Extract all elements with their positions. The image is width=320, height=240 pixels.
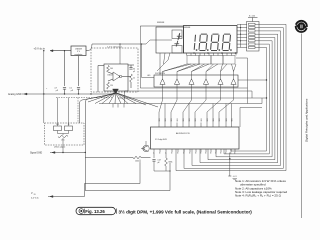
svg-text:µF: µF (158, 162, 161, 164)
svg-text:SEG: SEG (201, 117, 203, 121)
svg-text:P: P (160, 152, 162, 153)
svg-text:8 x 150: 8 x 150 (249, 15, 255, 17)
svg-text:LM113: LM113 (108, 75, 114, 77)
svg-text:1.2 V reference: 1.2 V reference (107, 46, 123, 49)
svg-text:+5 V dc in: +5 V dc in (34, 46, 46, 50)
svg-text:Note 4: R₁R₂(R₃ + R₄ + R₅) = 2: Note 4: R₁R₂(R₃ + R₄ + R₅) = 25 Ω (235, 193, 282, 197)
svg-text:SEG: SEG (177, 117, 179, 121)
svg-text:P: P (216, 152, 218, 153)
svg-text:Analog GND: Analog GND (8, 93, 22, 96)
svg-text:offset adjust: offset adjust (54, 145, 66, 148)
svg-text:P: P (235, 152, 237, 153)
svg-text:P: P (221, 152, 223, 153)
svg-text:680k: 680k (169, 162, 173, 164)
svg-text:100k: 100k (135, 161, 139, 163)
svg-text:regulator: regulator (75, 53, 83, 56)
svg-text:3½ digit DPM, +1.999 Vdc full: 3½ digit DPM, +1.999 Vdc full scale, (Na… (119, 208, 253, 214)
svg-text:Digital Principles and Applica: Digital Principles and Applications (305, 98, 309, 142)
svg-text:P: P (196, 152, 198, 153)
svg-text:NSB5388: NSB5388 (183, 27, 190, 29)
svg-text:P: P (231, 152, 233, 153)
svg-text:V: V (31, 192, 33, 195)
svg-text:µF: µF (71, 90, 74, 92)
svg-text:NSB5388: NSB5388 (157, 22, 164, 24)
svg-text:P: P (206, 152, 208, 153)
svg-text:120: 120 (110, 85, 113, 87)
svg-text:P: P (201, 152, 203, 153)
svg-text:P: P (226, 152, 228, 153)
svg-text:P: P (172, 152, 174, 153)
svg-text:Fig. 13.26: Fig. 13.26 (85, 209, 105, 214)
svg-text:µF: µF (56, 90, 59, 92)
svg-text:pF: pF (133, 71, 135, 73)
svg-text:2k: 2k (133, 78, 135, 80)
svg-text:0-2 V dc: 0-2 V dc (31, 197, 39, 199)
svg-text:+5 V: +5 V (233, 176, 238, 178)
svg-text:3 1/2-digit DVM: 3 1/2-digit DVM (155, 138, 167, 141)
svg-text:IN: IN (34, 194, 36, 196)
svg-text:P: P (190, 152, 192, 153)
svg-text:LED: LED (147, 75, 151, 77)
svg-text:P: P (211, 152, 213, 153)
svg-text:LM309: LM309 (75, 49, 82, 51)
svg-text:+: + (46, 88, 48, 90)
svg-text:P: P (184, 152, 186, 153)
svg-text:P: P (178, 152, 180, 153)
svg-text:ADD3501CCN: ADD3501CCN (176, 132, 190, 135)
svg-text:240: 240 (110, 68, 113, 70)
svg-text:Signal GND: Signal GND (30, 152, 42, 154)
